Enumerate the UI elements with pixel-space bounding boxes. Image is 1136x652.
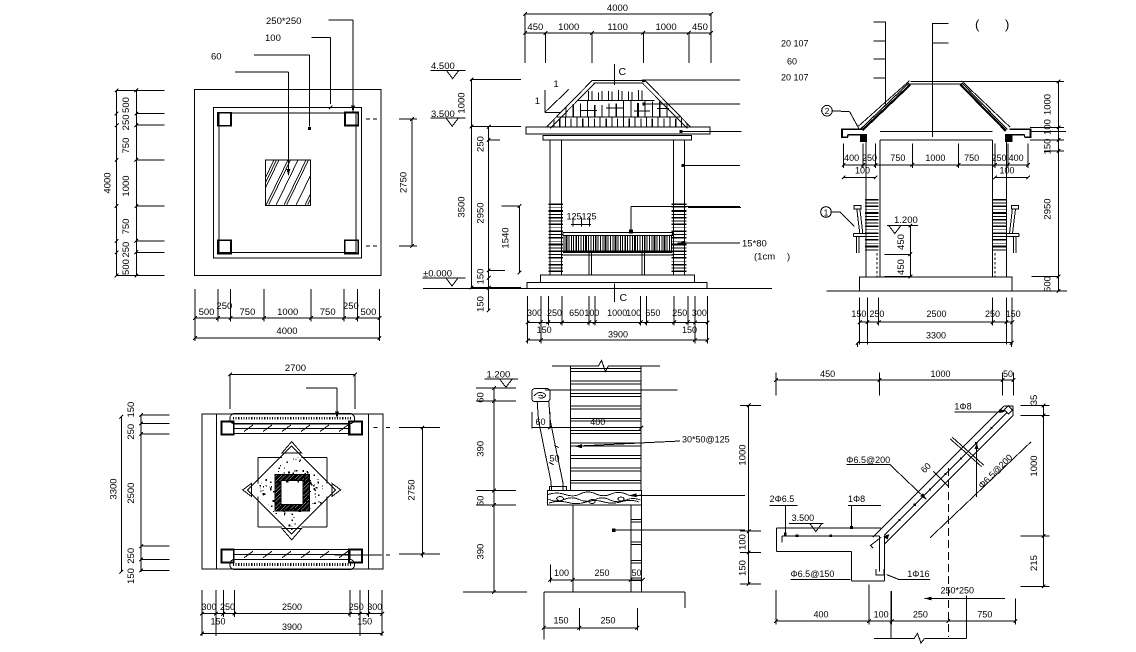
elevation left overall dim line (471, 79, 473, 287)
svg-text:4000: 4000 (607, 3, 628, 14)
eave detail bottom chain dims (776, 620, 1016, 622)
svg-text:100: 100 (626, 308, 641, 318)
plan2 outer square (202, 414, 383, 569)
svg-text:1: 1 (535, 96, 540, 107)
svg-text:500: 500 (361, 307, 377, 318)
left column stone banding (548, 203, 563, 205)
svg-text:1000: 1000 (277, 307, 298, 318)
svg-text:1000: 1000 (738, 444, 749, 465)
plan2 bottom total dim 3900 (202, 632, 382, 634)
svg-text:150: 150 (476, 269, 487, 285)
section mark C top (614, 64, 616, 85)
diagonal slab top cap (1004, 405, 1013, 407)
svg-text:250: 250 (672, 308, 687, 318)
dim 60 slat (531, 412, 533, 428)
svg-text:15*80: 15*80 (742, 239, 767, 250)
hatch lines in center square (252, 160, 349, 205)
svg-text:3900: 3900 (282, 622, 302, 632)
svg-text:300: 300 (527, 308, 542, 318)
bench detail column band courses (570, 368, 641, 370)
svg-text:3900: 3900 (608, 330, 628, 340)
svg-text:750: 750 (320, 307, 336, 318)
svg-text:1540: 1540 (501, 227, 512, 248)
svg-text:300: 300 (201, 602, 216, 612)
svg-text:1.200: 1.200 (894, 215, 918, 226)
dashed centerline (947, 468, 949, 637)
perpendicular double tick on slab upper (950, 439, 981, 467)
plan view 1: inner line square through columns (219, 113, 356, 253)
rebar bottom arrow (883, 534, 889, 540)
perpendicular tick on slab lower (934, 472, 949, 487)
bench detail column outline (569, 366, 571, 491)
svg-text:C: C (619, 66, 627, 78)
detail callout circle 2 (822, 105, 833, 116)
svg-text:390: 390 (476, 544, 487, 560)
svg-text:20 107: 20 107 (781, 73, 809, 83)
svg-text:30*50@125: 30*50@125 (682, 435, 730, 445)
svg-text:60: 60 (535, 417, 545, 427)
plan2 top dim 2700 (230, 374, 355, 376)
section right eave (1010, 128, 1031, 130)
svg-text:3300: 3300 (109, 478, 120, 499)
slab bottom rebar 2phi6.5 (782, 535, 880, 537)
leader seat arrow (630, 493, 637, 497)
svg-text:100: 100 (584, 308, 599, 318)
svg-text:100: 100 (265, 33, 281, 44)
plan1 left extension ticks (117, 89, 165, 91)
thin parallel diagonal line (930, 442, 1031, 538)
bench back cap (532, 389, 550, 402)
elevation bottom chain dims (528, 321, 708, 323)
plan2 bottom bench seat planks (234, 550, 350, 560)
section left bench (854, 206, 861, 209)
svg-text:150: 150 (1006, 309, 1021, 319)
bent bar 1phi16 in hook (878, 536, 880, 572)
svg-text:150: 150 (851, 309, 866, 319)
svg-text:400: 400 (813, 610, 828, 620)
plan2 top bench rounded outline (230, 413, 355, 423)
plan1 bottom total dim line 4000 (195, 337, 379, 339)
svg-text:2750: 2750 (399, 172, 410, 193)
bench detail dim 150 250 (544, 627, 638, 629)
railing lower line (561, 254, 673, 256)
svg-text:450: 450 (896, 259, 907, 275)
plan2 bottom-right column (349, 550, 362, 563)
roof left slope (547, 80, 593, 127)
slope symbol triangle (544, 90, 546, 112)
svg-text:1000: 1000 (558, 22, 579, 33)
svg-text:1100: 1100 (607, 22, 627, 33)
section mark C bottom (613, 284, 615, 302)
svg-text:2950: 2950 (1043, 198, 1054, 219)
section right roof slope slab (961, 81, 1010, 127)
svg-text:): ) (787, 252, 790, 263)
left railing post (588, 253, 590, 275)
plan2 ornament square frame with gaps (258, 457, 282, 459)
svg-text:150: 150 (126, 402, 137, 418)
diagonal slab outer edge (873, 406, 1004, 537)
svg-text:2500: 2500 (126, 483, 137, 504)
svg-text:3300: 3300 (926, 331, 946, 341)
eave detail right chain dims (1043, 406, 1045, 587)
plan2 top-right column (349, 422, 362, 435)
svg-text:3500: 3500 (457, 196, 468, 217)
svg-text:750: 750 (964, 153, 979, 163)
section right column (992, 140, 994, 277)
eave detail left chain dims (748, 405, 750, 584)
plan2 bottom bench dotted strip (233, 563, 351, 566)
plan2 right inner strip line (368, 414, 370, 569)
railing leader with dot (630, 207, 632, 231)
below-seat left edge (572, 505, 574, 592)
section right bench (1011, 206, 1018, 209)
svg-text:2500: 2500 (926, 309, 946, 319)
plan2 top leader (306, 387, 337, 389)
svg-text:250*250: 250*250 (266, 16, 301, 27)
svg-text:150: 150 (1043, 139, 1054, 155)
diagonal slab inner edge (885, 416, 1014, 545)
svg-text:150: 150 (537, 325, 552, 335)
dim 1540 (519, 206, 521, 273)
svg-text:1: 1 (824, 208, 829, 218)
detail callout circle 1 (821, 207, 832, 218)
leader below seat dot (612, 528, 615, 531)
svg-text:1000: 1000 (457, 92, 468, 113)
plan1 bottom chain dim line (195, 317, 379, 319)
svg-text:60: 60 (476, 392, 487, 403)
svg-text:250: 250 (349, 602, 364, 612)
svg-text:250: 250 (985, 309, 1000, 319)
section left column banding (865, 199, 879, 201)
column top-left (218, 113, 231, 126)
svg-text:250: 250 (594, 568, 609, 578)
roof right slope (645, 80, 691, 127)
plan2 ornament rotated diamond (248, 446, 336, 534)
svg-text:450: 450 (692, 22, 708, 33)
column below eave (890, 591, 892, 639)
svg-text:(1cm: (1cm (754, 252, 775, 263)
svg-text:400: 400 (1009, 153, 1024, 163)
base lower step (527, 282, 707, 288)
plan2 inner hatched square frame (275, 475, 310, 511)
ground line (423, 288, 772, 290)
right column (672, 140, 674, 275)
elevation top chain dim line (525, 32, 711, 34)
plan2 bottom bench leader (334, 554, 382, 556)
section ladder leader line (884, 22, 886, 105)
svg-text:100: 100 (855, 166, 870, 176)
eave fascia slab (526, 127, 710, 134)
svg-text:1000: 1000 (655, 22, 676, 33)
svg-text:250: 250 (126, 424, 137, 440)
elevation bottom second dim line 150 3900 150 (528, 339, 708, 341)
svg-text:1: 1 (553, 79, 558, 90)
plan1 bottom extension lines (194, 289, 196, 341)
svg-text:250: 250 (121, 242, 132, 258)
svg-text:150: 150 (357, 617, 372, 627)
column bottom-left (218, 240, 231, 253)
bench back slat (537, 402, 551, 491)
svg-text:60: 60 (476, 496, 487, 507)
svg-text:400: 400 (844, 153, 859, 163)
svg-text:650: 650 (569, 308, 584, 318)
svg-text:250: 250 (126, 548, 137, 564)
elevation left chain dim line (488, 127, 490, 311)
svg-text:2Φ6.5: 2Φ6.5 (770, 494, 795, 504)
svg-text:500: 500 (121, 97, 132, 113)
svg-text:150: 150 (476, 296, 487, 312)
plan2 top bench dotted strip (233, 417, 351, 420)
plan2 left inner strip line (216, 414, 218, 569)
svg-text:2: 2 (825, 106, 830, 116)
svg-text:500: 500 (1043, 276, 1054, 292)
svg-text:1Φ8: 1Φ8 (954, 402, 971, 412)
svg-text:100: 100 (874, 610, 889, 620)
svg-text:1000: 1000 (121, 175, 132, 196)
svg-text:2750: 2750 (407, 479, 418, 500)
leader lines to right (644, 79, 741, 81)
svg-text:4000: 4000 (103, 172, 114, 193)
svg-text:Φ6.5@200: Φ6.5@200 (846, 455, 890, 465)
svg-text:250: 250 (343, 301, 359, 312)
svg-text:250: 250 (216, 301, 232, 312)
svg-text:60: 60 (787, 57, 797, 67)
bench cap leader line (545, 389, 678, 391)
svg-text:(: ( (975, 17, 980, 32)
break line below column (874, 638, 914, 640)
svg-text:300: 300 (367, 602, 382, 612)
railing top rail (563, 233, 673, 236)
plan view 1: roof outer square (195, 90, 382, 276)
railing balusters (563, 235, 565, 250)
svg-text:250: 250 (862, 153, 877, 163)
section roof flat top slab (910, 81, 960, 83)
eave detail top chain dims 450 1000 50 (776, 379, 1014, 381)
svg-text:250: 250 (913, 610, 928, 620)
railing bottom rail (563, 250, 673, 253)
elevation top extension lines (524, 14, 526, 63)
plan1 left overall dim line 4000 (116, 90, 118, 275)
leader 15*80 with arrow (678, 241, 685, 245)
svg-text:20 107: 20 107 (781, 39, 809, 49)
svg-text:300: 300 (692, 308, 707, 318)
section base (860, 277, 1013, 291)
svg-text:450: 450 (820, 369, 835, 379)
plan1 right dim 2750 (366, 118, 377, 120)
svg-text:500: 500 (121, 259, 132, 275)
column top-right (345, 113, 358, 126)
section ground line (826, 290, 1067, 292)
svg-text:750: 750 (977, 610, 992, 620)
plan2 bottom chain dims (202, 613, 382, 615)
svg-text:390: 390 (476, 441, 487, 457)
bench detail top break line (552, 365, 598, 367)
svg-text:1000: 1000 (930, 369, 950, 379)
section interior chain dims 400 250 750 1000 750 250 400 (844, 164, 1029, 166)
svg-text:400: 400 (590, 417, 605, 427)
plan2 top-left column (221, 422, 233, 435)
svg-text:150: 150 (738, 560, 749, 576)
diagonal slab bottom drip tail (871, 537, 882, 548)
svg-text:60: 60 (211, 52, 222, 63)
section 100 100 dims (844, 176, 876, 178)
left column (549, 140, 551, 275)
bench slat foot (550, 487, 567, 491)
svg-text:2700: 2700 (285, 363, 306, 374)
svg-text:50: 50 (549, 454, 559, 464)
plan2 right dim 2750 (374, 427, 378, 429)
svg-text:150: 150 (682, 325, 697, 335)
svg-text:450: 450 (527, 22, 543, 33)
svg-text:250: 250 (600, 616, 615, 626)
plan2 top bench seat planks (234, 424, 350, 434)
section bottom chain dims (860, 321, 1013, 323)
leader to phi6.5@200 rotated (976, 443, 978, 497)
roof ridge double line (592, 79, 645, 81)
plan2 left chain dims (140, 415, 142, 572)
leader to hatch center (235, 71, 289, 73)
svg-text:2500: 2500 (282, 602, 302, 612)
section left column (865, 141, 867, 277)
section center leader line (931, 23, 933, 137)
bench detail left chain dims (493, 388, 495, 592)
svg-text:100: 100 (1043, 119, 1054, 135)
svg-text:250*250: 250*250 (941, 586, 975, 596)
svg-text:750: 750 (121, 219, 132, 235)
bench seat plank wood grain (548, 491, 642, 506)
svg-text:750: 750 (890, 153, 905, 163)
svg-text:C: C (620, 292, 628, 304)
svg-text:100: 100 (738, 534, 749, 550)
plan2 ornament speckles (294, 517, 295, 518)
below-seat right band (630, 505, 632, 592)
section right column banding (993, 199, 1007, 201)
svg-text:): ) (1005, 17, 1009, 32)
svg-text:4000: 4000 (276, 326, 297, 337)
section ring beam (880, 131, 993, 133)
svg-text:250: 250 (869, 309, 884, 319)
eave detail horizontal slab (777, 527, 882, 529)
elevation top total dim 4000 (525, 13, 711, 15)
plan view 1: inner ring beam square (214, 108, 362, 259)
plan2 bottom-left column (221, 550, 233, 563)
svg-text:250: 250 (121, 114, 132, 130)
plan1 left chain dim line (135, 90, 137, 275)
rebar in diagonal slab (884, 413, 1007, 536)
svg-text:100: 100 (999, 166, 1014, 176)
svg-text:150: 150 (553, 616, 568, 626)
svg-text:2950: 2950 (476, 202, 487, 223)
right railing post (641, 253, 643, 275)
column bottom-right (345, 240, 359, 253)
svg-text:1000: 1000 (1043, 94, 1054, 115)
svg-text:250: 250 (547, 308, 562, 318)
svg-text:750: 750 (121, 138, 132, 154)
base upper step (540, 275, 694, 282)
svg-text:1000: 1000 (1029, 455, 1040, 476)
svg-text:250: 250 (991, 153, 1006, 163)
svg-text:1Φ16: 1Φ16 (907, 569, 929, 579)
svg-text:100: 100 (554, 568, 569, 578)
rebar top diamond hook (1004, 406, 1012, 414)
section right dim chain (961, 81, 1065, 83)
svg-text:750: 750 (240, 307, 256, 318)
dim 400 (550, 427, 641, 429)
svg-text:Φ6.5@150: Φ6.5@150 (791, 569, 835, 579)
svg-text:150: 150 (210, 617, 225, 627)
plan2 bottom bench rounded outline (230, 559, 355, 569)
roof shingles (548, 90, 687, 127)
bench detail base (544, 591, 685, 593)
section 450 450 dims (909, 226, 911, 277)
section bottom total dim 3300 (858, 342, 1012, 344)
svg-text:1Φ8: 1Φ8 (848, 494, 865, 504)
svg-text:1000: 1000 (925, 153, 945, 163)
svg-text:150: 150 (126, 568, 137, 584)
leader 30*50@125 (575, 444, 582, 448)
svg-text:3.500: 3.500 (792, 513, 815, 523)
plan2 left total dim 3300 (120, 417, 122, 572)
svg-text:250: 250 (476, 136, 487, 152)
svg-text:650: 650 (645, 308, 660, 318)
svg-text:50: 50 (631, 568, 641, 578)
hidden dashed lines below benches (876, 253, 878, 277)
eave lower band (543, 136, 692, 140)
svg-text:35: 35 (1029, 395, 1040, 406)
svg-text:50: 50 (1003, 369, 1013, 379)
plan2 center ornament triangles (282, 442, 301, 453)
svg-text:250: 250 (220, 602, 235, 612)
bench detail dim 100 250 50 (550, 579, 642, 581)
section left roof slope slab (858, 81, 909, 127)
svg-text:215: 215 (1029, 555, 1040, 571)
right column stone banding (672, 203, 687, 205)
dim 50 slat ticks (554, 445, 558, 447)
svg-text:450: 450 (896, 234, 907, 250)
center hatched square (265, 160, 310, 205)
section left eave (842, 128, 863, 130)
svg-text:500: 500 (199, 307, 215, 318)
svg-text:1000: 1000 (607, 308, 627, 318)
